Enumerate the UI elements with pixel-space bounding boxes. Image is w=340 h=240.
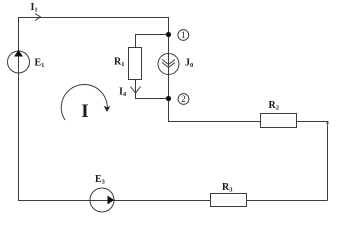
resistor R2 (261, 114, 297, 128)
voltage source E1 (8, 50, 30, 73)
small arrow on wire right (326, 122, 329, 129)
loop current I arc (61, 84, 107, 120)
voltage source E3 (90, 188, 114, 212)
wire top (18, 17, 169, 19)
wire main vertical node1-node2 (168, 17, 170, 122)
current arrow I4 (131, 87, 141, 94)
node label 1 (178, 30, 189, 41)
node 1 dot (166, 32, 171, 37)
resistor R1 (129, 48, 142, 80)
wire middle horizontal to R2 (168, 121, 328, 123)
svg-text:1: 1 (181, 30, 186, 40)
wire right (327, 121, 329, 201)
loop arrowhead (104, 106, 111, 112)
wire left (18, 17, 20, 201)
current arrow I1 (35, 14, 41, 21)
node label 2 (178, 94, 189, 105)
wire bottom (18, 200, 328, 202)
node 2 dot (166, 96, 171, 101)
svg-text:I: I (81, 101, 88, 122)
svg-text:2: 2 (181, 94, 186, 104)
wire R1 to node2 (136, 80, 169, 99)
current source J0 (158, 54, 179, 75)
resistor R3 (211, 194, 247, 207)
wire node1 to R1 (136, 35, 169, 48)
